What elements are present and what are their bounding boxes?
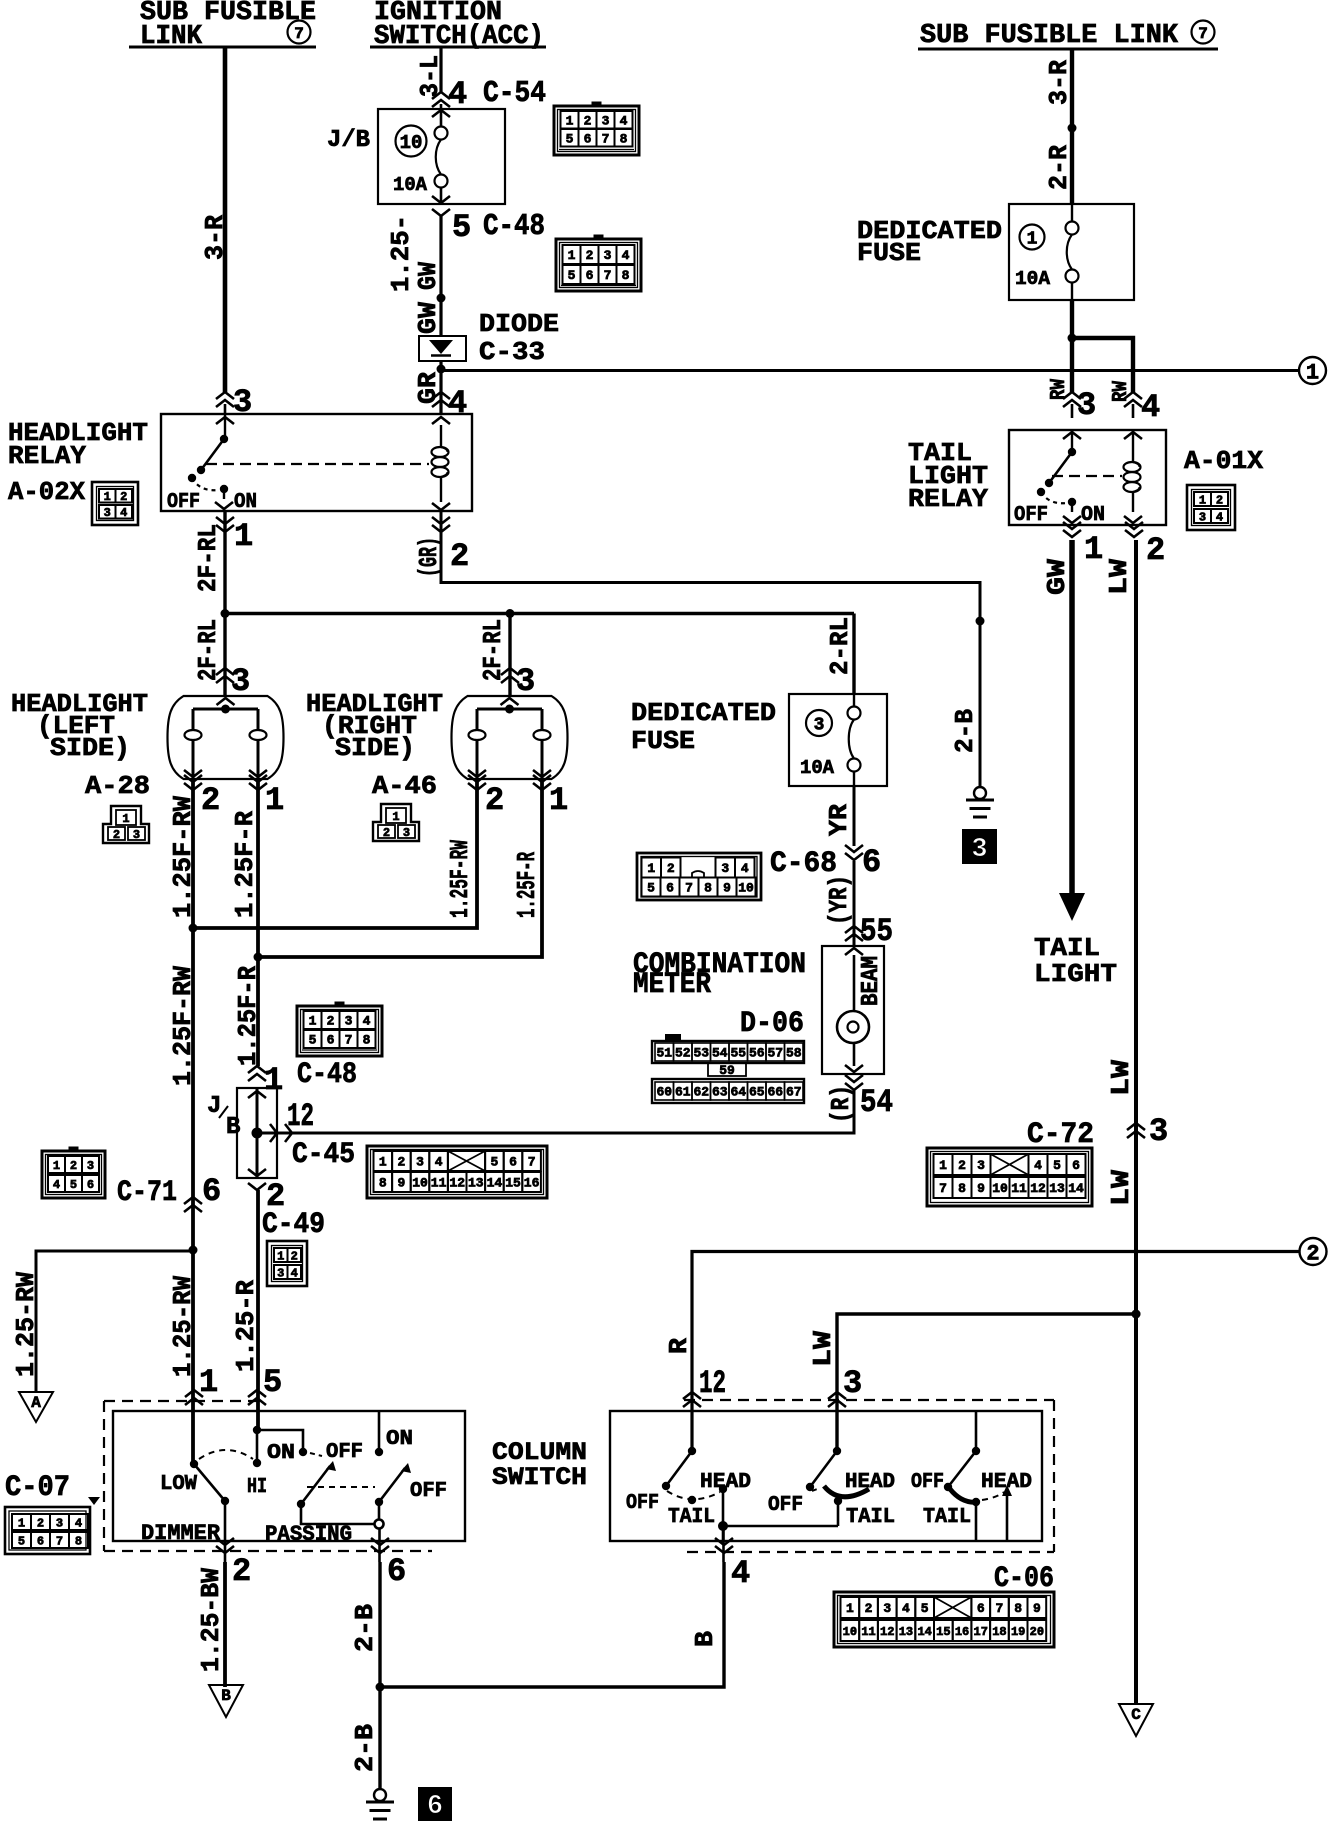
lighting switch 3 — [911, 1411, 1032, 1541]
svg-text:B: B — [221, 1687, 231, 1705]
svg-text:8: 8 — [75, 1534, 82, 1548]
svg-text:53: 53 — [693, 1046, 709, 1061]
svg-text:LW: LW — [1106, 1060, 1136, 1096]
label GR + pin 4 into headlight relay — [413, 372, 467, 424]
svg-text:C-71: C-71 — [117, 1176, 177, 1210]
svg-text:61: 61 — [675, 1085, 691, 1100]
svg-text:GR: GR — [413, 372, 443, 404]
svg-text:3: 3 — [56, 1516, 63, 1530]
connector icon C-68 (10-pin) — [637, 853, 761, 900]
wire B from column switch pin 4 — [380, 1562, 724, 1687]
connector chevrons + pin 3 at headlight relay — [216, 384, 252, 424]
svg-text:4: 4 — [620, 113, 628, 128]
svg-text:5: 5 — [921, 1601, 929, 1616]
svg-text:SIDE): SIDE) — [335, 733, 415, 763]
svg-text:51: 51 — [656, 1046, 672, 1061]
svg-text:14: 14 — [1068, 1181, 1084, 1196]
svg-text:C-45: C-45 — [292, 1138, 355, 1172]
svg-text:7: 7 — [56, 1534, 63, 1548]
svg-text:14: 14 — [917, 1625, 931, 1639]
svg-text:3: 3 — [602, 113, 610, 128]
wire 2-RL to dedicated fuse 3 — [825, 614, 855, 695]
headlight left pin 2 and pin 1 — [184, 775, 284, 819]
connector icon D-06 cell 59 — [708, 1063, 746, 1078]
svg-text:OFF: OFF — [911, 1471, 944, 1494]
svg-text:19: 19 — [1011, 1625, 1025, 1639]
svg-text:2: 2 — [865, 1601, 873, 1616]
svg-text:66: 66 — [767, 1085, 783, 1100]
meter pin 54 — [826, 1075, 893, 1123]
svg-text:2F-RL: 2F-RL — [193, 524, 223, 592]
svg-text:1.25-: 1.25- — [386, 215, 416, 292]
svg-text:C-07: C-07 — [5, 1471, 70, 1505]
svg-text:1: 1 — [647, 861, 655, 876]
svg-text:RW: RW — [1110, 381, 1133, 402]
svg-text:BEAM: BEAM — [858, 956, 885, 1006]
svg-text:4: 4 — [622, 248, 630, 263]
svg-text:64: 64 — [730, 1085, 746, 1100]
svg-text:3: 3 — [971, 835, 987, 865]
svg-text:OFF: OFF — [626, 1492, 659, 1515]
svg-text:65: 65 — [749, 1085, 765, 1100]
headlight (left side) A-28 bulb — [11, 689, 284, 801]
svg-text:1: 1 — [18, 1516, 25, 1530]
combination meter box — [633, 946, 884, 1074]
branch to triangle A — [11, 1246, 198, 1393]
power feed label: SUB FUSIBLE LINK (7) (right) — [918, 21, 1218, 52]
svg-text:HEAD: HEAD — [700, 1471, 751, 1494]
svg-text:1: 1 — [566, 113, 574, 128]
headlight relay switch contacts — [167, 414, 257, 514]
column switch left box (dimmer/passing) — [113, 1411, 465, 1541]
svg-text:LOW: LOW — [160, 1473, 197, 1496]
diode C-33 — [419, 309, 559, 367]
wire 2F-RL from relay pin 1 to headlight bus — [193, 511, 225, 696]
svg-text:OFF: OFF — [1014, 504, 1048, 527]
svg-text:C: C — [1131, 1706, 1141, 1724]
tail relay pin 1 (GW) and pin 2 (LW) — [1042, 522, 1165, 595]
svg-text:C-48: C-48 — [297, 1058, 357, 1092]
connector C-48 pin 1 above J/B — [248, 1062, 283, 1099]
dedicated fuse 3 (10A) — [631, 694, 887, 786]
svg-text:12: 12 — [880, 1625, 894, 1639]
svg-text:3: 3 — [233, 384, 252, 421]
svg-text:1: 1 — [265, 782, 284, 819]
svg-text:C-49: C-49 — [262, 1208, 325, 1242]
svg-text:6: 6 — [666, 881, 674, 896]
svg-text:A-28: A-28 — [85, 771, 150, 801]
svg-text:1.25F-R: 1.25F-R — [230, 811, 260, 918]
svg-text:PASSING: PASSING — [265, 1522, 352, 1547]
svg-text:2-B: 2-B — [350, 1724, 380, 1772]
svg-text:DIMMER: DIMMER — [141, 1521, 221, 1546]
svg-text:9: 9 — [1033, 1601, 1041, 1616]
svg-text:1: 1 — [122, 812, 129, 826]
svg-text:3: 3 — [277, 1266, 284, 1280]
svg-text:2-B: 2-B — [950, 709, 980, 753]
ground symbol (bottom) — [366, 1789, 394, 1819]
svg-text:1: 1 — [309, 1014, 317, 1029]
svg-text:1: 1 — [1199, 493, 1206, 507]
svg-text:1.25F-RW: 1.25F-RW — [445, 840, 475, 918]
ground reference box 3 — [962, 829, 997, 865]
connector C-54 pin 4 chevrons and label — [432, 76, 546, 113]
svg-text:GW: GW — [413, 262, 443, 290]
svg-text:(YR): (YR) — [824, 875, 854, 925]
svg-text:6: 6 — [509, 1155, 517, 1170]
svg-text:1: 1 — [392, 810, 399, 824]
svg-text:2: 2 — [958, 1158, 966, 1173]
headlight left pin 3 — [216, 663, 250, 700]
svg-text:8: 8 — [620, 131, 628, 146]
svg-text:11: 11 — [861, 1625, 875, 1639]
headlight (right side) A-46 bulb — [306, 689, 568, 801]
svg-text:1: 1 — [199, 1364, 218, 1401]
svg-text:3-R: 3-R — [200, 215, 230, 260]
svg-text:RELAY: RELAY — [8, 441, 86, 471]
svg-text:4: 4 — [363, 1014, 371, 1029]
svg-text:1: 1 — [53, 1159, 60, 1173]
svg-text:3: 3 — [814, 715, 825, 735]
svg-text:8: 8 — [379, 1176, 387, 1191]
svg-text:DEDICATED: DEDICATED — [631, 698, 776, 728]
passing switch — [297, 1441, 379, 1524]
svg-text:7: 7 — [345, 1033, 353, 1048]
tail light relay A-01X box — [908, 430, 1263, 525]
lighting switch 1-2 tail link — [723, 1525, 838, 1528]
connector icon C-45 (16-pin) — [367, 1146, 547, 1198]
dedicated fuse 1 (10A) — [857, 204, 1134, 300]
svg-text:1.25F-R: 1.25F-R — [233, 966, 263, 1066]
svg-text:7: 7 — [294, 25, 304, 43]
wire GW to tail light (thick arrow) — [1034, 540, 1117, 989]
svg-text:10A: 10A — [393, 174, 428, 196]
svg-text:10A: 10A — [1015, 268, 1051, 290]
svg-text:1.25F-RW: 1.25F-RW — [168, 796, 198, 918]
svg-text:LW: LW — [808, 1331, 838, 1367]
column switch pin 4 — [715, 1526, 750, 1592]
svg-text:8: 8 — [958, 1181, 966, 1196]
svg-text:7: 7 — [996, 1601, 1004, 1616]
svg-text:16: 16 — [955, 1625, 969, 1639]
svg-text:2: 2 — [232, 1553, 251, 1590]
headlight relay A-02X box — [8, 414, 472, 511]
svg-text:2: 2 — [201, 782, 220, 819]
connector C-72 label and icon — [927, 1118, 1094, 1206]
svg-text:2: 2 — [584, 113, 592, 128]
ground reference box 6 — [418, 1787, 452, 1822]
svg-text:3: 3 — [231, 663, 250, 700]
headlight bus wire — [221, 609, 855, 618]
svg-text:OFF: OFF — [167, 491, 200, 514]
svg-text:9: 9 — [977, 1181, 985, 1196]
svg-text:2: 2 — [450, 538, 469, 575]
svg-text:10A: 10A — [800, 757, 835, 779]
svg-text:8: 8 — [622, 268, 630, 283]
svg-text:11: 11 — [1011, 1181, 1027, 1196]
svg-text:SWITCH: SWITCH — [492, 1463, 587, 1492]
svg-text:ON: ON — [1081, 504, 1105, 527]
svg-text:6: 6 — [862, 844, 881, 881]
wire 3-R / 2-R from right sub fusible link — [1044, 49, 1077, 204]
svg-text:4: 4 — [1034, 1158, 1042, 1173]
svg-text:1.25-BW: 1.25-BW — [196, 1568, 226, 1672]
connector icon A-01X (2x2) — [1187, 485, 1235, 530]
headlight right pin 3 — [501, 663, 535, 700]
ground symbol (2-B) — [966, 787, 994, 817]
svg-text:GW: GW — [413, 302, 443, 334]
wire 3-L from ignition switch to J/B — [415, 47, 445, 97]
svg-text:1: 1 — [1306, 360, 1319, 385]
wire 1.25F-R (left bulb pin 1) — [230, 779, 263, 1066]
svg-text:C-33: C-33 — [479, 337, 545, 367]
svg-text:3: 3 — [843, 1365, 862, 1402]
wire RW from fuse to tail light relay — [1068, 300, 1134, 418]
svg-text:LW: LW — [1104, 559, 1134, 595]
svg-text:2: 2 — [397, 1155, 405, 1170]
svg-text:SUB FUSIBLE LINK: SUB FUSIBLE LINK — [920, 21, 1179, 51]
svg-text:11: 11 — [431, 1176, 447, 1191]
svg-text:63: 63 — [712, 1085, 728, 1100]
svg-text:18: 18 — [992, 1625, 1006, 1639]
svg-text:8: 8 — [1014, 1601, 1022, 1616]
svg-text:TAIL: TAIL — [923, 1506, 971, 1529]
wire LW to triangle C — [1132, 1310, 1141, 1319]
svg-text:5: 5 — [309, 1033, 317, 1048]
connector icon A-02X (2x2) — [92, 482, 138, 525]
svg-text:3: 3 — [977, 1158, 985, 1173]
svg-text:HEAD: HEAD — [845, 1471, 895, 1494]
wire 2F-RL to right headlight — [478, 614, 510, 697]
svg-text:2-B: 2-B — [350, 1604, 380, 1652]
svg-text:20: 20 — [1030, 1625, 1044, 1639]
svg-text:HI: HI — [247, 1476, 267, 1499]
svg-text:13: 13 — [1049, 1181, 1065, 1196]
svg-text:2: 2 — [37, 1516, 44, 1530]
svg-text:1.25-RW: 1.25-RW — [11, 1272, 41, 1377]
svg-text:2: 2 — [1216, 493, 1223, 507]
svg-text:YR: YR — [824, 804, 854, 836]
svg-text:1.25F-RW: 1.25F-RW — [168, 966, 198, 1086]
svg-text:5: 5 — [70, 1178, 77, 1192]
svg-text:1: 1 — [379, 1155, 387, 1170]
svg-text:1: 1 — [549, 782, 568, 819]
triangle C — [1119, 1704, 1153, 1736]
svg-text:3: 3 — [883, 1601, 891, 1616]
svg-text:2-RL: 2-RL — [825, 617, 855, 675]
connector C-71 pin 6 on wire — [184, 1173, 221, 1212]
svg-text:B: B — [690, 1631, 720, 1647]
svg-text:2: 2 — [485, 782, 504, 819]
svg-text:1: 1 — [1084, 531, 1103, 568]
svg-text:13: 13 — [468, 1176, 484, 1191]
svg-text:6: 6 — [1072, 1158, 1080, 1173]
svg-text:4: 4 — [291, 1266, 298, 1280]
column switch pin 3 (LW) — [828, 1365, 862, 1407]
svg-text:2: 2 — [1306, 1241, 1319, 1266]
svg-text:(R): (R) — [826, 1085, 856, 1123]
svg-text:67: 67 — [786, 1085, 802, 1100]
lighting switch 1 (wire 12) — [626, 1447, 751, 1541]
svg-text:3: 3 — [345, 1014, 353, 1029]
connector C-48 pin 5 below J/B — [432, 209, 545, 246]
connector icon C-49 (2x2) — [267, 1241, 307, 1286]
high-beam indicator bulb in meter — [837, 955, 885, 1072]
svg-text:METER: METER — [633, 968, 711, 1002]
svg-text:D-06: D-06 — [740, 1007, 804, 1041]
wire 1.25-R to column switch pin 5 — [231, 1190, 282, 1430]
svg-text:ON: ON — [386, 1428, 413, 1451]
svg-text:1: 1 — [1027, 229, 1038, 249]
wire 1.25-RW to column switch pin 1 — [168, 1197, 218, 1464]
svg-text:7: 7 — [939, 1181, 947, 1196]
lighting on-off switch (left box) — [307, 1411, 447, 1562]
svg-text:62: 62 — [693, 1085, 709, 1100]
svg-text:2: 2 — [120, 490, 127, 504]
svg-text:17: 17 — [974, 1625, 988, 1639]
svg-text:FUSE: FUSE — [857, 238, 921, 268]
labels DIMMER / PASSING — [141, 1521, 352, 1547]
svg-text:TAIL: TAIL — [668, 1506, 715, 1529]
svg-text:3: 3 — [1077, 387, 1096, 424]
connector icon C-54 (8-pin) — [554, 102, 639, 156]
connector icon C-48 (8-pin, top) — [556, 235, 641, 292]
wire 1.25F-RW (left bulb pin 2) — [168, 779, 198, 1197]
junction block J/B with fuse 10 (10A) — [327, 104, 505, 204]
svg-text:10: 10 — [400, 132, 423, 154]
svg-text:5: 5 — [490, 1155, 498, 1170]
svg-text:A-01X: A-01X — [1184, 446, 1263, 476]
lighting switch 2 (wire 3) — [768, 1447, 895, 1529]
dimmer switch HI contact — [247, 1459, 267, 1499]
svg-text:4: 4 — [53, 1178, 60, 1192]
svg-text:6: 6 — [977, 1601, 985, 1616]
svg-text:55: 55 — [730, 1046, 746, 1061]
connector icon D-06 row 51-58 — [652, 1034, 804, 1063]
svg-text:2: 2 — [70, 1159, 77, 1173]
svg-text:7: 7 — [602, 131, 610, 146]
column switch pin 2 — [216, 1501, 251, 1590]
svg-text:OFF: OFF — [768, 1494, 803, 1517]
svg-text:2: 2 — [113, 828, 120, 842]
power feed label: SUB FUSIBLE LINK (7) (left) — [129, 0, 316, 52]
svg-text:5: 5 — [18, 1534, 25, 1548]
power feed label: IGNITION SWITCH(ACC) — [370, 0, 546, 52]
column switch dashed boundary (right) — [684, 1400, 1054, 1552]
svg-text:5: 5 — [566, 131, 574, 146]
svg-text:2: 2 — [1146, 532, 1165, 569]
headlight relay pin 2 (GR) — [414, 517, 469, 577]
wire (YR) to meter pin 55 — [824, 861, 893, 950]
svg-text:J: J — [207, 1093, 221, 1120]
triangle B — [209, 1685, 243, 1717]
wire (GR) from relay pin 2 to tail light circuit — [441, 511, 980, 621]
wire to right-edge node 2 — [664, 1252, 1299, 1452]
svg-text:52: 52 — [675, 1046, 691, 1061]
svg-text:6: 6 — [87, 1178, 94, 1192]
svg-text:1: 1 — [234, 518, 253, 555]
svg-text:3-L: 3-L — [415, 55, 445, 97]
svg-text:A-46: A-46 — [372, 771, 437, 801]
connector C-68 pin 6 — [770, 844, 881, 881]
svg-text:7: 7 — [604, 268, 612, 283]
wire (R) from meter pin 54 to J/B — [257, 1090, 854, 1133]
connector C-71 label and icon — [42, 1147, 177, 1211]
tail light relay coil — [1124, 430, 1143, 523]
wire to right-edge node 1 (horizontal bus) — [441, 369, 1299, 372]
svg-text:RW: RW — [1048, 379, 1071, 400]
label C-06 and connector icon C-06 (20-pin) — [834, 1562, 1054, 1647]
svg-text:6: 6 — [586, 268, 594, 283]
svg-text:7: 7 — [1198, 25, 1208, 43]
svg-text:R: R — [664, 1338, 694, 1354]
svg-text:57: 57 — [767, 1046, 783, 1061]
svg-text:A: A — [31, 1394, 41, 1412]
svg-text:1.25F-R: 1.25F-R — [512, 852, 542, 918]
svg-text:10: 10 — [738, 881, 754, 896]
svg-text:10: 10 — [843, 1625, 857, 1639]
svg-text:6: 6 — [37, 1534, 44, 1548]
svg-text:DIODE: DIODE — [479, 309, 559, 339]
svg-text:58: 58 — [786, 1046, 802, 1061]
tail relay pins 3 and 4 — [1048, 379, 1160, 439]
svg-text:3: 3 — [104, 506, 111, 520]
svg-text:54: 54 — [712, 1046, 728, 1061]
svg-text:4: 4 — [448, 76, 467, 113]
svg-text:6: 6 — [327, 1033, 335, 1048]
svg-text:C-54: C-54 — [483, 76, 546, 111]
connector C-72 pin 3 on LW wire — [1127, 1113, 1168, 1150]
svg-text:3: 3 — [721, 861, 729, 876]
wire 5 branch to passing ON — [253, 1426, 307, 1465]
wire 1.25-GW from J/B to diode — [386, 215, 446, 336]
svg-text:2: 2 — [667, 861, 675, 876]
node 2 (circled) at right edge — [1300, 1238, 1327, 1266]
headlight relay coil — [432, 425, 451, 510]
svg-text:2: 2 — [383, 826, 390, 840]
svg-text:5: 5 — [647, 881, 655, 896]
svg-text:1: 1 — [568, 248, 576, 263]
column switch dashed boundary (left) — [104, 1401, 432, 1551]
svg-text:4: 4 — [448, 385, 467, 422]
svg-text:ON: ON — [267, 1442, 295, 1465]
wire from right bulb pin 2 — [189, 779, 478, 933]
svg-text:2: 2 — [327, 1014, 335, 1029]
column switch right box (lighting switch) — [610, 1411, 1042, 1541]
svg-text:3: 3 — [1149, 1113, 1168, 1150]
svg-text:LIGHT: LIGHT — [1034, 959, 1117, 989]
svg-text:1: 1 — [104, 490, 111, 504]
column switch pin 6 — [371, 1538, 406, 1590]
svg-text:7: 7 — [685, 881, 693, 896]
svg-text:4: 4 — [435, 1155, 443, 1170]
tail light relay switch contacts — [1014, 430, 1105, 527]
svg-text:4: 4 — [741, 861, 749, 876]
svg-text:3: 3 — [1199, 510, 1206, 524]
svg-text:3: 3 — [416, 1155, 424, 1170]
svg-text:2: 2 — [586, 248, 594, 263]
svg-text:4: 4 — [1141, 389, 1160, 426]
svg-text:1.25-R: 1.25-R — [231, 1280, 261, 1372]
connector C-45 pin 12 (wire to combination meter) — [270, 1098, 355, 1172]
svg-text:4: 4 — [75, 1516, 82, 1530]
svg-text:6: 6 — [584, 131, 592, 146]
wire 2-B to ground (right of fuse) — [950, 617, 985, 788]
svg-text:A-02X: A-02X — [8, 477, 85, 507]
svg-text:6: 6 — [202, 1173, 221, 1210]
connector C-49 pin 2 below J/B — [248, 1169, 325, 1242]
svg-text:56: 56 — [749, 1046, 765, 1061]
